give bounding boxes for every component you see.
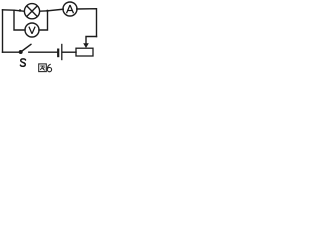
wire voltmeter branch left bbox=[14, 10, 25, 30]
caption 图6 bbox=[39, 64, 47, 72]
wire voltmeter branch right up to node A bbox=[39, 11, 48, 30]
wire ammeter to top-right corner and down right side bbox=[77, 9, 97, 37]
rheostat bbox=[76, 43, 93, 56]
battery bbox=[58, 44, 62, 60]
voltmeter V bbox=[25, 23, 39, 37]
ammeter A bbox=[63, 2, 77, 16]
node A junction dot bbox=[46, 10, 48, 12]
wire lamp to node A bbox=[40, 10, 48, 12]
wire top-left from corner to lamp bbox=[3, 10, 25, 11]
wire node A to ammeter bbox=[48, 9, 64, 11]
wire switch contact to battery bbox=[29, 51, 57, 53]
switch S bbox=[19, 44, 31, 54]
rheostat slider arrow bbox=[83, 43, 89, 48]
node B junction dot bbox=[19, 9, 22, 12]
lamp bbox=[24, 4, 39, 19]
wire bottom-left to switch pivot bbox=[3, 51, 21, 53]
wire battery to rheostat bbox=[63, 51, 76, 53]
wire right corner to rheostat slider bbox=[86, 37, 97, 44]
label S bbox=[20, 59, 25, 66]
wire left side vertical bbox=[2, 10, 4, 52]
